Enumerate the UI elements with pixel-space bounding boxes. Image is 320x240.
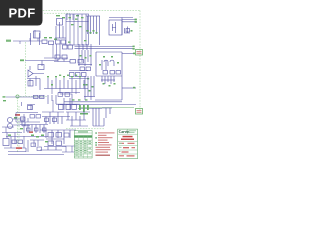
node label B1 [6, 40, 11, 42]
mains tick [21, 102, 23, 106]
wire grid feed [13, 38, 42, 44]
green output wire [80, 107, 134, 109]
grid marks green [80, 55, 92, 59]
capacitor C1 [55, 19, 66, 39]
capacitor bank C3 [63, 44, 92, 50]
resistor R2 [49, 41, 54, 45]
green fleck far left [3, 96, 6, 97]
output L wire [95, 58, 136, 100]
cap pair [22, 120, 30, 126]
reverb tube V5 [27, 76, 40, 90]
standby switch cluster [20, 125, 48, 134]
driver verticals left [78, 50, 92, 66]
coupling box [38, 65, 44, 70]
parts table [74, 131, 92, 158]
wire bus top mid [86, 15, 100, 17]
red label rect [16, 147, 22, 149]
extra ps wires [2, 113, 76, 153]
green flecks top [56, 15, 79, 18]
wire to right edge [122, 53, 134, 55]
filter caps cluster [40, 112, 76, 150]
bias verticals mid [84, 76, 95, 100]
dashed section border mid-left [25, 42, 27, 96]
box green marks [68, 17, 87, 43]
rail terminals [133, 46, 135, 50]
resistor R3 [56, 40, 61, 44]
green flecks standby [31, 135, 44, 138]
resistor R12 [40, 95, 45, 98]
green labels row mesh [47, 76, 85, 86]
mesh top flecks [59, 75, 89, 80]
transistor Q1 [124, 27, 130, 34]
heater bus dashed wire top [40, 11, 140, 14]
bus wire screen rail [75, 48, 134, 50]
pilot ticks under top bus [67, 14, 73, 20]
speaker jack parts [102, 108, 112, 118]
PDF badge [0, 0, 43, 26]
long bus wire lower2 [60, 104, 136, 106]
green label vol [20, 59, 24, 61]
mains entry component [16, 105, 38, 113]
resistor R11 [34, 95, 39, 98]
connector J2 [136, 50, 143, 56]
resistor R7 [70, 60, 76, 64]
connector J3 [136, 109, 143, 115]
title block [118, 129, 138, 159]
page background [0, 0, 149, 198]
bus wire B+ rail [75, 46, 134, 48]
green flecks ps [3, 100, 48, 142]
capacitor row C5 [69, 71, 88, 79]
fuse red label [15, 114, 20, 116]
green text row mid-top [44, 37, 57, 40]
presence green flecks [103, 83, 116, 87]
green fleck mains [14, 117, 17, 119]
green mark right [133, 87, 135, 89]
resistor R8 [78, 60, 84, 64]
OT verticals [78, 108, 104, 126]
OT green pins [79, 105, 89, 115]
switch cluster S1 [54, 55, 70, 62]
power tube box V3 V4 [96, 52, 122, 76]
terminal marks [131, 19, 137, 32]
choke L1 [66, 112, 90, 126]
capacitor C8 [66, 105, 71, 110]
presence parts top [101, 76, 115, 84]
preamp channel box U1 [66, 14, 89, 45]
resistor R16 [86, 67, 91, 71]
rectifier cluster [2, 133, 48, 153]
svg-text:Carvin: Carvin [119, 130, 130, 134]
capacitor C9 [72, 105, 77, 110]
power supply box PS1 [109, 18, 136, 36]
mesh flecks above OT [72, 99, 88, 100]
warning text red [119, 136, 135, 157]
cathode marks [87, 30, 98, 34]
wire drops V2 grid [88, 16, 100, 45]
bias green marks [86, 84, 94, 92]
dashed wire bottom mid [66, 128, 104, 130]
svg-text:PDF: PDF [9, 6, 36, 21]
long bus wire lower1 [64, 101, 122, 103]
resistor R4 [61, 40, 66, 44]
dashed section border lower-left [18, 97, 20, 152]
mesh lower boxes [52, 89, 76, 97]
heater wire left [6, 96, 44, 98]
feedback mesh [44, 78, 88, 93]
volume wire mid-left [25, 61, 58, 67]
wire stub x53 [52, 100, 54, 112]
resistor R1 [42, 40, 47, 44]
dashed section border right [139, 11, 141, 111]
tube V1 [31, 30, 41, 45]
red fleck ps [29, 131, 33, 133]
triangle buffer A1 [28, 66, 44, 77]
dashed heater wire preamp [20, 96, 48, 98]
notes list [95, 132, 114, 155]
node circle lamp [16, 95, 19, 98]
power transformer T1 [7, 117, 25, 129]
resistor R15 [80, 67, 85, 71]
resistor R13 [59, 105, 64, 110]
interstage verticals [44, 44, 68, 58]
screen marks power [99, 56, 119, 66]
extra ps boxes [30, 115, 69, 151]
bottom long wire [8, 154, 64, 156]
green terminal [133, 53, 135, 55]
pi filter cluster [48, 94, 80, 110]
